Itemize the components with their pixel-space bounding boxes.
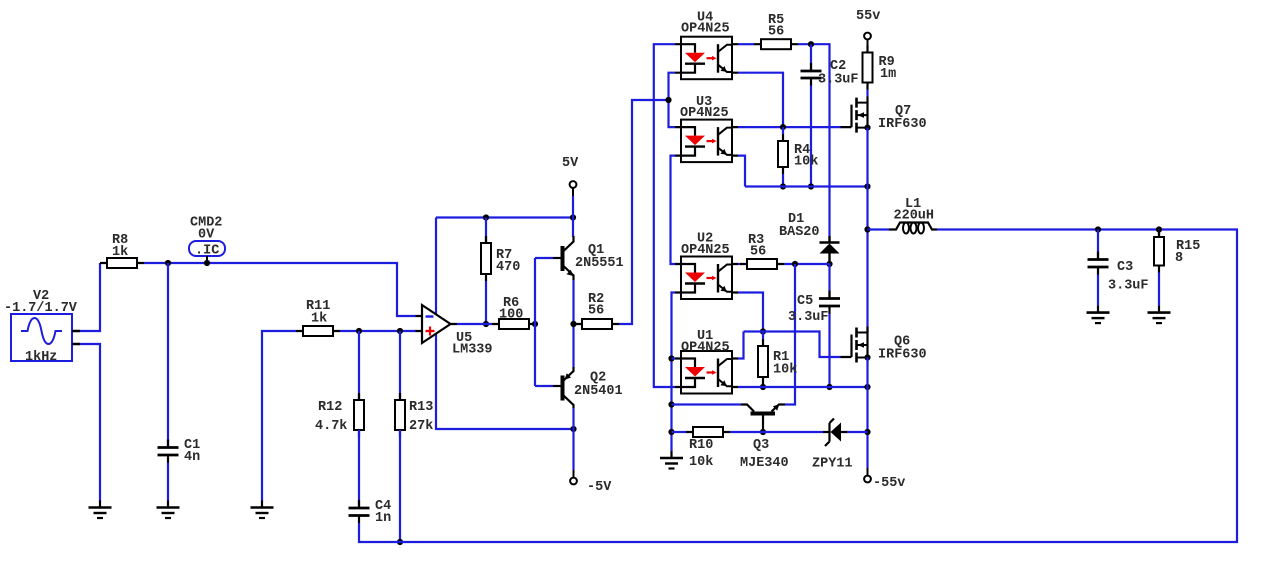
junction dot C1 branch <box>165 260 171 266</box>
wire V2 minus to ground <box>80 344 100 501</box>
V2 value label -1.7/1.7V <box>4 301 78 316</box>
R12 value label 4.7k <box>315 419 347 434</box>
-5V terminal <box>570 478 577 485</box>
junction dot 5V terminal <box>570 214 576 220</box>
wire 5V rail to R7 <box>485 218 487 244</box>
Q3 base lead <box>762 416 764 431</box>
wire R9 to Q7 drain <box>866 90 868 98</box>
svg-text:OP4N25: OP4N25 <box>681 243 730 258</box>
svg-text:4n: 4n <box>184 450 200 465</box>
junction dot R2 drive node on LED chain <box>665 97 671 103</box>
Q6 part label IRF630 <box>878 347 927 362</box>
Q2 label <box>590 370 606 385</box>
Q1 collector <box>563 236 574 252</box>
svg-text:220uH: 220uH <box>894 209 935 224</box>
junction dot R7 top on 5V rail <box>483 214 489 220</box>
junction dot R3 output node <box>792 261 798 267</box>
svg-text:C3: C3 <box>1117 260 1133 275</box>
Q7 label <box>895 104 911 119</box>
R11 label <box>306 299 330 314</box>
V2 label <box>33 289 49 304</box>
wire -55v terminal stub <box>867 468 869 476</box>
junction dot emitters to R2 <box>570 321 576 327</box>
svg-text:LM339: LM339 <box>452 342 493 357</box>
wire U5 V+ pin to 5V rail <box>435 218 437 316</box>
wire R8 to comparator inverting input (node IN) <box>144 263 416 316</box>
junction dot Q7 source on SW rail <box>864 183 870 189</box>
wire U2 collector to R3 <box>738 263 740 265</box>
R2 label <box>588 292 604 307</box>
wire node IN down to C1 <box>167 263 169 446</box>
svg-text:5V: 5V <box>562 156 579 171</box>
ground at C3 <box>1087 306 1110 324</box>
svg-text:27k: 27k <box>409 419 433 434</box>
junction dot R4 bottom on SW rail <box>780 183 786 189</box>
wire R13 to bottom feedback wire <box>399 430 401 542</box>
resistor R9 <box>863 46 873 90</box>
svg-text:-5V: -5V <box>587 480 612 495</box>
R8 value label 1k <box>112 245 128 260</box>
C2 value label 3.3uF <box>818 72 859 87</box>
optocoupler U2 <box>675 257 738 300</box>
wire U4 collector to R5 <box>738 43 754 45</box>
junction dot Q3 collector node <box>668 401 674 407</box>
capacitor C5 <box>819 291 840 315</box>
R3 value label 56 <box>750 244 766 259</box>
svg-text:4.7k: 4.7k <box>315 419 347 434</box>
wire C1 to ground <box>167 463 169 502</box>
U5 input pin stubs <box>416 316 458 331</box>
V2 sine waveform symbol <box>21 318 62 344</box>
wire U3 emitter to SW rail <box>738 156 745 187</box>
R2 value label 56 <box>588 303 604 318</box>
R4 label <box>794 143 810 158</box>
junction dot R1 bottom on low rail <box>760 384 766 390</box>
wire R10 to Q3 base node <box>730 431 763 433</box>
svg-text:3.3uF: 3.3uF <box>788 310 829 325</box>
wire R4 bottom to SW rail <box>782 174 784 187</box>
wire C2 top <box>810 44 812 70</box>
wire V2 plus to R8 <box>80 263 100 331</box>
wire Q1 emitter to Q2 emitter <box>572 280 574 367</box>
optocoupler U3 <box>675 120 738 163</box>
transistor Q1 base bar <box>561 246 565 271</box>
op-amp U5 triangle <box>422 305 451 343</box>
wire zener anode to -55v node <box>847 431 868 433</box>
wire ground to R11 <box>262 331 296 501</box>
svg-text:8: 8 <box>1175 251 1183 266</box>
wire 5V rail <box>436 216 573 218</box>
Q1 base lead <box>553 257 561 259</box>
wire output node to R15 <box>1158 230 1160 238</box>
junction dot Q7 source body tie <box>864 125 870 131</box>
svg-text:OP4N25: OP4N25 <box>681 21 730 36</box>
svg-text:Q3: Q3 <box>753 438 769 453</box>
R9 value label 1m <box>880 67 896 82</box>
C2 label <box>830 59 846 74</box>
wire U3 cathode to U2 anode <box>671 156 676 264</box>
wire C3 to ground <box>1097 275 1099 306</box>
wire rail to Q1 collector <box>572 218 574 238</box>
junction dot low rail at Q6 source <box>864 384 870 390</box>
R6 label <box>503 296 519 311</box>
wire node FB down to R13 <box>399 331 401 400</box>
R7 value label 470 <box>496 260 520 275</box>
wire C2 bottom to SW rail <box>810 86 812 187</box>
junction dot D1 anode node <box>826 261 832 267</box>
U4 part label OP4N25 <box>681 21 730 36</box>
svg-text:1n: 1n <box>375 511 391 526</box>
svg-text:R10: R10 <box>689 438 713 453</box>
svg-text:3.3uF: 3.3uF <box>1108 278 1149 293</box>
svg-text:-1.7/1.7V: -1.7/1.7V <box>4 301 78 316</box>
R8 label <box>112 233 128 248</box>
svg-text:10k: 10k <box>773 362 797 377</box>
wire -5V terminal stub <box>573 470 575 478</box>
svg-text:IRF630: IRF630 <box>878 117 927 132</box>
R11 value label 1k <box>311 311 327 326</box>
ground at R15 <box>1148 306 1171 324</box>
junction dot Q6 gate node <box>760 328 766 334</box>
wire U2 emitter to Q6 gate node <box>738 293 763 332</box>
R13 label <box>409 400 433 415</box>
R5 label <box>768 13 784 28</box>
junction dot Q6 source body tie <box>864 354 870 360</box>
wire R2 to opto LED chain midpoint <box>619 100 669 324</box>
svg-text:BAS20: BAS20 <box>779 225 820 240</box>
svg-text:1kHz: 1kHz <box>25 350 57 365</box>
capacitor C4 <box>349 500 370 524</box>
optocoupler U4 <box>675 37 738 79</box>
D1 part label BAS20 <box>779 225 820 240</box>
svg-text:56: 56 <box>750 244 766 259</box>
resistor R4 <box>778 134 788 174</box>
U3 part label OP4N25 <box>680 106 729 121</box>
ground at opto chain <box>660 451 683 469</box>
wire R3 node down to Q3 emitter <box>785 264 795 405</box>
svg-text:56: 56 <box>768 24 784 39</box>
R15 label <box>1176 239 1200 254</box>
Q1 emitter with arrow <box>563 266 574 281</box>
wire base rail to Q1 base <box>535 257 553 259</box>
R7 label <box>496 248 512 263</box>
R6 value label 100 <box>499 307 523 322</box>
resistor R7 <box>481 236 491 281</box>
svg-text:55v: 55v <box>856 9 880 24</box>
wire 55v terminal stub <box>867 39 869 46</box>
C4 value label 1n <box>375 511 391 526</box>
wire R4 top lead <box>782 127 784 134</box>
C5 value label 3.3uF <box>788 310 829 325</box>
Q1 label <box>588 243 604 258</box>
wire Q7 gate line <box>738 126 841 128</box>
wire SW rail <box>745 185 868 187</box>
wire R3 to D1 anode node <box>784 263 830 265</box>
wire Q2 collector to -5V terminal <box>572 408 574 470</box>
C5 label <box>797 294 813 309</box>
diode D1 BAS20 <box>820 236 840 261</box>
wire Q3 collector to ground node <box>672 403 742 405</box>
wire U4 cathode to U3 anode <box>669 73 676 127</box>
junction dot R12 top <box>356 328 362 334</box>
C3 label <box>1117 260 1133 275</box>
resistor R8 <box>100 258 144 268</box>
wire low rail U1 emitter to Q6 source <box>738 386 868 388</box>
L1 label <box>905 197 921 212</box>
wire U1 collector up to gate node <box>738 332 744 359</box>
wire L1 to output and feedback loop <box>359 230 1237 543</box>
wire U4 emitter to Q7 gate node <box>738 73 783 127</box>
svg-text:470: 470 <box>496 260 520 275</box>
wire Q6 gate line <box>744 332 841 358</box>
U5 minus input symbol <box>426 315 434 317</box>
junction dot R7 bottom on output wire <box>483 321 489 327</box>
Q3 emitter with arrow <box>772 404 786 411</box>
wire 5V terminal to rail <box>572 196 574 218</box>
ground at V2 <box>89 501 112 519</box>
junction dot R4 top on gate line <box>780 124 786 130</box>
R12 label <box>318 400 342 415</box>
wire U4 anode / U1 cathode chain <box>654 44 675 387</box>
Q2 base lead <box>553 385 561 387</box>
wire CMD2 stub <box>206 256 208 263</box>
Q3 label <box>753 438 769 453</box>
junction dot CMD2 stub <box>204 260 210 266</box>
Q2 emitter with arrow <box>563 367 574 381</box>
svg-text:-55v: -55v <box>873 476 905 491</box>
wire node FB down to R12 <box>358 331 360 400</box>
C1 label <box>184 438 200 453</box>
ground at C1 <box>157 501 180 519</box>
resistor R10 <box>686 427 730 437</box>
svg-text:1k: 1k <box>112 245 128 260</box>
wire C5 bottom to low rail <box>828 314 830 388</box>
ground at R11 <box>251 501 274 519</box>
wire ground node to R10 <box>672 431 687 433</box>
svg-text:IRF630: IRF630 <box>878 347 927 362</box>
junction dot R13 bottom on feedback wire <box>397 539 403 545</box>
V2 pin stubs <box>72 331 80 344</box>
junction dot R10 left node <box>668 429 674 435</box>
Q3 collector <box>741 405 754 412</box>
R10 label <box>689 438 713 453</box>
R9 label <box>879 55 895 70</box>
R1 value label 10k <box>773 362 797 377</box>
wire R1 bottom to low rail <box>762 384 764 387</box>
R3 label <box>748 233 764 248</box>
voltage source V2 box <box>11 314 72 361</box>
5V terminal <box>570 181 577 188</box>
resistor R11 <box>296 326 340 336</box>
svg-text:OP4N25: OP4N25 <box>681 340 730 355</box>
5V supply label <box>562 156 579 171</box>
junction dot C5 bottom on low rail <box>826 384 832 390</box>
svg-text:1k: 1k <box>311 311 327 326</box>
capacitor C3 <box>1088 252 1109 276</box>
junction dot R15 top <box>1156 226 1162 232</box>
R1 label <box>773 350 789 365</box>
wire Q6 source to -55v <box>866 358 868 469</box>
optocoupler U1 <box>675 351 738 394</box>
svg-text:R12: R12 <box>318 400 342 415</box>
U2 label <box>697 231 713 246</box>
55v supply label <box>856 9 880 24</box>
junction dot R6 output to base rail <box>532 321 538 327</box>
svg-text:3.3uF: 3.3uF <box>818 72 859 87</box>
R15 value label 8 <box>1175 251 1183 266</box>
U4 label <box>697 10 713 25</box>
transistor Q2 base bar <box>561 376 565 401</box>
junction dot U1 anode <box>668 355 674 361</box>
wire U5 V- pin to -5V node <box>436 333 574 429</box>
wire U2 cathode to ground chain <box>672 293 676 452</box>
wire base rail to Q2 base <box>535 385 553 387</box>
svg-text:0V: 0V <box>198 227 215 242</box>
-55v terminal <box>864 476 871 483</box>
junction dot SW to L1 <box>864 226 870 232</box>
resistor R1 <box>758 339 768 384</box>
junction dot Q3 base node <box>760 429 766 435</box>
junction dot C2 bottom on SW rail <box>808 183 814 189</box>
inductor L1 <box>868 223 938 234</box>
-5V supply label <box>587 480 612 495</box>
wire Q7 source down SW node <box>866 128 868 333</box>
mosfet Q6 <box>841 327 868 363</box>
CMD2 .IC text <box>195 243 219 258</box>
U5 part label LM339 <box>452 342 493 357</box>
zener diode ZPY11 <box>823 419 847 447</box>
junction dot C3 top <box>1095 226 1101 232</box>
capacitor C2 <box>801 63 822 86</box>
wire R15 to ground <box>1158 273 1160 306</box>
U2 part label OP4N25 <box>681 243 730 258</box>
55v terminal <box>864 33 871 40</box>
svg-text:10k: 10k <box>689 455 713 470</box>
wire R11 to comparator non-inverting input (node FB) <box>340 330 416 332</box>
svg-text:2N5551: 2N5551 <box>575 256 624 271</box>
C1 value label 4n <box>184 450 200 465</box>
wire gate node to R1 <box>762 332 764 340</box>
resistor R13 <box>395 393 405 437</box>
CMD2 value label 0V <box>198 227 215 242</box>
svg-text:56: 56 <box>588 303 604 318</box>
D1 label <box>788 212 804 227</box>
U3 label <box>696 95 712 110</box>
R4 value label 10k <box>794 154 818 169</box>
U1 part label OP4N25 <box>681 340 730 355</box>
R13 value label 27k <box>409 419 433 434</box>
junction dot Q2 collector -5V node <box>570 426 576 432</box>
wire U5 output to R6 <box>457 323 492 325</box>
Q6 label <box>894 334 910 349</box>
resistor R3 <box>740 259 784 269</box>
Q3 part label MJE340 <box>740 456 789 471</box>
transistor Q3 base bar <box>751 412 776 416</box>
svg-text:2N5401: 2N5401 <box>574 384 623 399</box>
wire R5 to bootstrap node <box>798 44 830 236</box>
U5 plus input symbol <box>426 327 435 336</box>
Q2 collector <box>563 395 574 408</box>
ZPY11 part label <box>812 456 853 471</box>
initial condition flag CMD2 oval <box>189 241 225 256</box>
resistor R5 <box>754 39 798 49</box>
C4 label <box>375 499 391 514</box>
svg-text:OP4N25: OP4N25 <box>680 106 729 121</box>
svg-text:C5: C5 <box>797 294 813 309</box>
junction dot zener anode node <box>864 429 870 435</box>
capacitor C1 <box>158 440 179 464</box>
U1 label <box>697 329 713 344</box>
svg-text:R13: R13 <box>409 400 433 415</box>
wire R12 to C4 <box>358 430 360 507</box>
wire U1 anode stub <box>672 357 676 359</box>
-55v supply label <box>873 476 905 491</box>
resistor R6 <box>492 319 536 329</box>
junction dot R13 top <box>397 328 403 334</box>
Q2 part label 2N5401 <box>574 384 623 399</box>
svg-text:100: 100 <box>499 307 523 322</box>
C3 value label 3.3uF <box>1108 278 1149 293</box>
U5 label <box>456 331 472 346</box>
resistor R12 <box>354 393 364 437</box>
wire R7 bottom to U5 output <box>485 281 487 324</box>
L1 value label 220uH <box>894 209 935 224</box>
wire output node to C3 <box>1097 230 1099 259</box>
Q1 part label 2N5551 <box>575 256 624 271</box>
Q7 part label IRF630 <box>878 117 927 132</box>
svg-text:1m: 1m <box>880 67 896 82</box>
V2 frequency label 1kHz <box>25 350 57 365</box>
mosfet Q7 <box>841 97 868 133</box>
R10 value label 10k <box>689 455 713 470</box>
junction dot C2 top <box>808 41 814 47</box>
R5 value label 56 <box>768 24 784 39</box>
svg-text:10k: 10k <box>794 154 818 169</box>
wire Q3 base node to zener <box>763 431 823 433</box>
svg-text:ZPY11: ZPY11 <box>812 456 853 471</box>
svg-text:MJE340: MJE340 <box>740 456 789 471</box>
wire 5V terminal stub <box>572 188 574 196</box>
wire base rail Q1-Q2 <box>534 258 536 386</box>
resistor R15 <box>1154 230 1164 273</box>
wire D1 anode node to C5 <box>828 264 830 298</box>
CMD2 label <box>190 215 222 230</box>
resistor R2 <box>575 319 619 329</box>
